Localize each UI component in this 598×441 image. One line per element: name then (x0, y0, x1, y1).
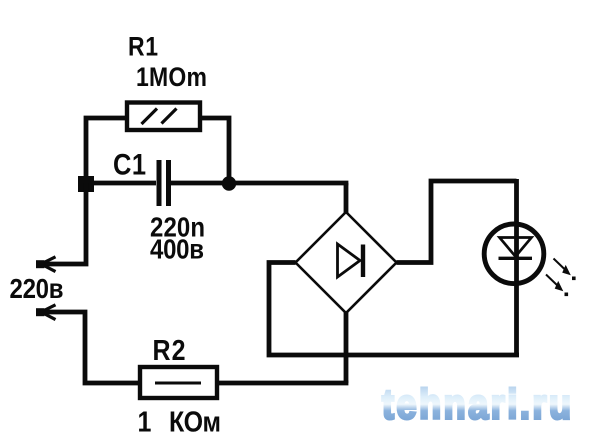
svg-text:R2: R2 (153, 333, 186, 366)
watermark tehnari.ru (382, 382, 571, 428)
svg-text:1MOm: 1MOm (136, 62, 207, 92)
bridge diode symbol (338, 244, 364, 277)
node B (right junction, dot) (222, 176, 236, 190)
wire bridge top feed (down into diamond) (344, 183, 349, 214)
resistor R1 (127, 103, 200, 131)
svg-text:КОм: КОм (169, 405, 221, 438)
resistor R2 (140, 367, 217, 398)
value label 220n (150, 211, 205, 243)
svg-text:tehnari.ru: tehnari.ru (382, 382, 571, 428)
label R1 (128, 32, 158, 62)
label 220в (10, 272, 64, 304)
LED light arrow 1 (554, 259, 576, 281)
svg-text:1: 1 (138, 405, 152, 438)
wire bridge left output (269, 263, 519, 356)
wire bridge bottom feed (diamond to R2 wire) (344, 311, 349, 383)
svg-text:400в: 400в (150, 233, 204, 265)
wire R1 left lead (86, 118, 125, 185)
wire bridge right output (397, 181, 517, 263)
label R2 (153, 333, 186, 366)
bridge rectifier VD1 (diamond) (296, 212, 397, 313)
wire R1 right lead (202, 118, 229, 183)
value label 400в (150, 233, 204, 265)
value label 1 КОм (138, 405, 152, 438)
wire left drop (node A down to upper AC terminal) (44, 183, 86, 264)
wire lower AC to R2 (44, 312, 140, 383)
wire top middle (C1 right plate to bridge top feed) (171, 181, 348, 186)
label C1 (113, 148, 146, 181)
wire top left (node to C1 left plate) (84, 181, 156, 186)
LED diode symbol (499, 238, 533, 259)
wire R2 right to bridge minus (217, 381, 348, 386)
svg-text:C1: C1 (113, 148, 146, 181)
LED D1 (circle) (484, 224, 544, 284)
value label 1MOm (136, 62, 207, 92)
capacitor C1 (159, 160, 169, 206)
LED light arrow 2 (546, 275, 568, 297)
node A (left junction, square) (78, 176, 94, 192)
arrow upper AC terminal (36, 257, 56, 272)
wire LED vertical (514, 179, 519, 355)
svg-text:220в: 220в (10, 272, 64, 304)
arrow lower AC terminal (36, 305, 56, 320)
svg-text:R1: R1 (128, 32, 158, 62)
